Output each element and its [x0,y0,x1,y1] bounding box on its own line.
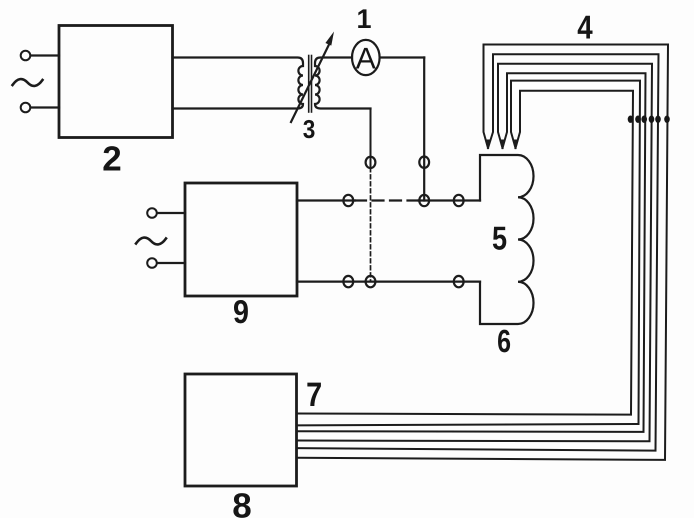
top bus dashed segment [355,199,419,201]
svg-text:2: 2 [102,140,121,179]
terminal circle top input of block 9 [147,208,157,218]
needle tip 3 filled [513,140,518,150]
connector circle on ammeter branch [419,157,429,168]
dash-dot wire down to bottom bus [370,168,372,282]
connector circle on top bus middle [419,195,429,206]
svg-text:8: 8 [232,487,251,518]
loop turn 5 with needle tip [297,81,641,426]
connector circle on bottom bus right [454,276,464,287]
wire terminal to block 2 top [31,54,59,56]
connector circle on bottom bus left [343,276,353,287]
transformer secondary winding [315,58,371,109]
needle tip 2 filled [500,140,505,150]
connector circle on top bus right [454,195,464,206]
top bus solid segment to coil [419,199,481,201]
svg-text:9: 9 [233,293,249,330]
connector circle on transformer branch [366,157,376,168]
terminal circle bottom input of block 2 [21,103,31,113]
dot marks on loop right side [628,116,670,123]
block 9 rectangle [185,183,297,296]
top bus wire solid from block 9 [297,199,355,201]
terminal circle top input of block 2 [21,51,31,61]
wire terminal to block 9 bottom [158,262,186,264]
induction coil 5 [480,155,534,324]
bottom bus wire from block 9 to coil [297,281,480,283]
loop turn 1 outermost with needle tip [297,45,669,460]
transformer core bar left [308,56,310,113]
wire vertical down from transformer branch [370,109,372,169]
svg-text:1: 1 [356,4,371,34]
wire terminal to block 9 top [158,212,186,214]
loop turn 6 innermost with needle tip [297,91,634,415]
svg-text:4: 4 [577,8,593,45]
transformer core bar right [311,56,313,113]
terminal circle bottom input of block 9 [147,258,157,268]
block 8 rectangle [185,374,297,486]
ammeter A circle [352,40,380,75]
svg-text:A: A [356,43,376,76]
wire vertical down from ammeter branch to top bus [423,58,425,201]
block 2 rectangle [59,26,173,138]
wire terminal to block 2 bottom [31,106,59,108]
svg-text:6: 6 [497,323,511,359]
AC source tilde symbol at block 9 input [136,238,166,245]
connector circle on top bus left [343,195,353,206]
variable transformer arrow head [325,32,334,46]
loop turn 4 with needle tip [297,73,646,432]
svg-text:7: 7 [306,376,322,414]
wire ammeter right going right [380,56,425,58]
svg-text:3: 3 [303,114,316,144]
connector circle on bottom bus at branch [366,276,376,287]
variable transformer arrow shaft [291,44,330,123]
wire block 2 to transformer primary top and primary winding [173,58,304,109]
AC source tilde symbol at block 2 input [13,79,43,86]
loop turn 2 with needle tip [297,54,659,450]
loop turn 3 with needle tip [297,64,653,442]
needle tip 1 filled [486,140,491,150]
svg-text:5: 5 [492,220,507,257]
